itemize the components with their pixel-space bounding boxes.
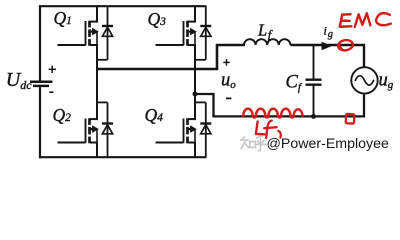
watermark zhihu glyphs [241, 136, 266, 151]
diode D1 (body diode of Q1) [97, 6, 113, 60]
red annotation EMC [340, 13, 391, 27]
diode D3 (body diode of Q3) [195, 6, 211, 60]
svg-text:Q2: Q2 [53, 105, 72, 125]
svg-text:uo: uo [221, 70, 236, 91]
transistor Q3 [156, 21, 197, 46]
diode D4 (body diode of Q4) [195, 102, 211, 157]
svg-text:Lf: Lf [257, 21, 273, 42]
wire Lf to grid source [290, 45, 364, 68]
battery plus sign [49, 66, 56, 73]
wire left leg midsection [96, 45, 98, 120]
svg-text:Q4: Q4 [145, 105, 164, 125]
inductor Lf [244, 39, 290, 45]
capacitor Cf [306, 80, 322, 85]
diode D2 (body diode of Q2) [97, 102, 113, 157]
wire Q3 drain [194, 6, 196, 22]
wire left rail upper [39, 5, 41, 80]
transistor Q1 [58, 21, 99, 46]
svg-text:Q1: Q1 [54, 8, 72, 28]
wire right leg midsection [194, 45, 196, 120]
svg-text:Cf: Cf [286, 73, 303, 94]
capacitor Cf lead upper [313, 45, 315, 80]
wire output B line (right midpoint to grid source) [195, 94, 364, 116]
svg-text:Q3: Q3 [148, 9, 167, 29]
wire Q4 source to bottom rail [194, 142, 196, 157]
wire bottom rail [39, 156, 206, 158]
battery minus sign [49, 91, 53, 93]
wire left rail lower [39, 87, 41, 158]
wire Q1 drain [96, 6, 98, 22]
ac source ug [351, 67, 377, 93]
svg-text:Udc: Udc [6, 69, 32, 92]
wire output A line (left midpoint to Lf) [97, 45, 245, 69]
current arrow ig [322, 42, 333, 51]
red annotation coil scribble (parasitic Lf) [243, 109, 302, 118]
wire top rail [39, 5, 206, 7]
red annotation square on return wire [346, 114, 355, 124]
wire Q2 source to bottom rail [96, 142, 98, 157]
transistor Q2 [58, 118, 99, 143]
red annotation Lf text [256, 121, 281, 138]
battery Udc [30, 82, 53, 86]
svg-text:ig: ig [324, 23, 333, 40]
capacitor Cf lead lower [313, 85, 315, 117]
red annotation circle on ig wire (EMC noise spot) [337, 39, 353, 51]
label output plus [223, 59, 230, 66]
node capacitor bottom junction [311, 114, 316, 119]
transistor Q4 [156, 118, 197, 143]
svg-text:ug: ug [379, 70, 394, 91]
node B (right leg midpoint junction) [193, 92, 198, 97]
svg-text:@Power-Employee: @Power-Employee [267, 136, 390, 152]
label output minus [226, 97, 231, 99]
